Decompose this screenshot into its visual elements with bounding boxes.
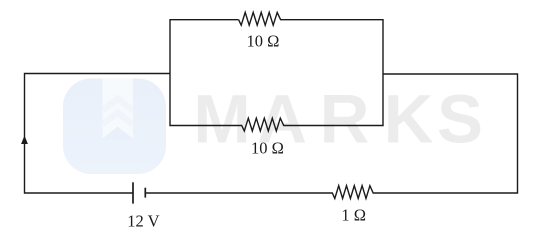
svg-text:M: M <box>193 81 250 158</box>
svg-text:10 Ω: 10 Ω <box>247 31 280 50</box>
svg-text:12 V: 12 V <box>127 212 159 231</box>
svg-text:S: S <box>437 81 483 158</box>
svg-text:R: R <box>320 81 370 158</box>
svg-text:10 Ω: 10 Ω <box>251 139 284 158</box>
svg-text:1 Ω: 1 Ω <box>341 206 366 225</box>
svg-text:K: K <box>384 81 434 158</box>
